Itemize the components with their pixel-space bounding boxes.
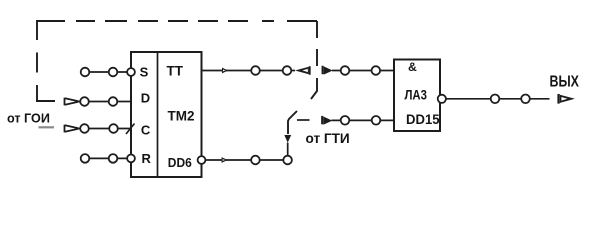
D input wire	[78, 101, 131, 103]
S inversion circle	[127, 68, 135, 76]
C dynamic input slash	[126, 124, 135, 135]
S input socket circle 2	[109, 68, 118, 77]
svg-text:D: D	[141, 91, 150, 106]
flip-flop control/main field divider	[157, 52, 159, 177]
inverted Q output inversion circle	[198, 156, 206, 164]
inverted Q socket circle 1	[251, 156, 260, 165]
svg-text:TT: TT	[167, 64, 184, 79]
jumper cable (dashed) left vertical	[36, 20, 38, 101]
AND output inversion circle	[438, 95, 446, 103]
svg-text:C: C	[141, 123, 151, 138]
GTI socket connector	[321, 116, 323, 124]
output socket circle 1	[491, 95, 500, 104]
svg-text:DD15: DD15	[406, 111, 440, 127]
svg-text:от ГТИ: от ГТИ	[306, 131, 350, 146]
switch blade dashed segment lower	[288, 111, 297, 134]
Q output wire	[202, 70, 296, 72]
GTI input stub wire	[297, 119, 310, 121]
jumper cable (dashed) right vertical upper	[316, 21, 318, 66]
inverted Q wire direction arrow	[222, 157, 228, 163]
jumper socket on Q side	[322, 66, 324, 74]
S input socket circle 1	[81, 68, 90, 77]
D input socket circle 1	[80, 97, 89, 106]
C input socket circle 1	[80, 124, 89, 133]
output connector pin ВЫХ	[557, 94, 559, 104]
svg-text:S: S	[140, 64, 149, 79]
Q wire direction arrow	[222, 68, 228, 74]
C input socket circle 2	[109, 124, 118, 133]
Q socket circle 2	[283, 66, 292, 75]
inverted Q socket circle 2 (riser junction)	[283, 156, 292, 165]
C input wire	[78, 128, 131, 130]
switch plug arrow (down)	[284, 135, 291, 143]
jumper cable bottom-left lead to D connector	[36, 100, 55, 102]
svg-text:R: R	[142, 151, 152, 166]
AND gate DD15 box	[394, 60, 440, 132]
upper-right socket circle 1	[341, 66, 350, 75]
R input socket circle 1	[81, 154, 90, 163]
D input socket circle 2	[109, 97, 118, 106]
dash under от ГОИ	[39, 126, 55, 128]
D input connector pin	[65, 98, 79, 106]
upper-right socket circle 2	[372, 66, 381, 75]
svg-text:ТМ2: ТМ2	[168, 107, 195, 123]
output socket circle 2	[521, 95, 530, 104]
Q output connector plug	[295, 67, 309, 75]
wire GTI socket to AND input	[331, 119, 394, 121]
GTI socket circle 2	[372, 116, 381, 125]
svg-text:от ГОИ: от ГОИ	[7, 112, 50, 126]
C input connector pin	[65, 125, 79, 133]
svg-text:DD6: DD6	[168, 155, 192, 170]
svg-text:ЛА3: ЛА3	[404, 87, 427, 103]
svg-text:&: &	[408, 60, 417, 74]
Q socket circle 1	[251, 66, 260, 75]
svg-text:ВЫХ: ВЫХ	[550, 74, 580, 91]
jumper cable (dashed) top horizontal	[37, 20, 317, 22]
R input socket circle 2	[109, 154, 118, 163]
GTI socket circle 1	[341, 116, 350, 125]
wire socket to AND input	[332, 70, 394, 72]
AND output wire	[446, 98, 550, 100]
R inversion circle	[127, 155, 135, 163]
switch blade dashed segment upper	[311, 78, 317, 99]
flip-flop DD6 box	[131, 52, 202, 177]
S input wire	[85, 71, 131, 73]
wire from plug arrow down to socket circle	[287, 143, 289, 156]
R input wire	[85, 157, 131, 159]
inverted Q output wire	[205, 159, 287, 161]
